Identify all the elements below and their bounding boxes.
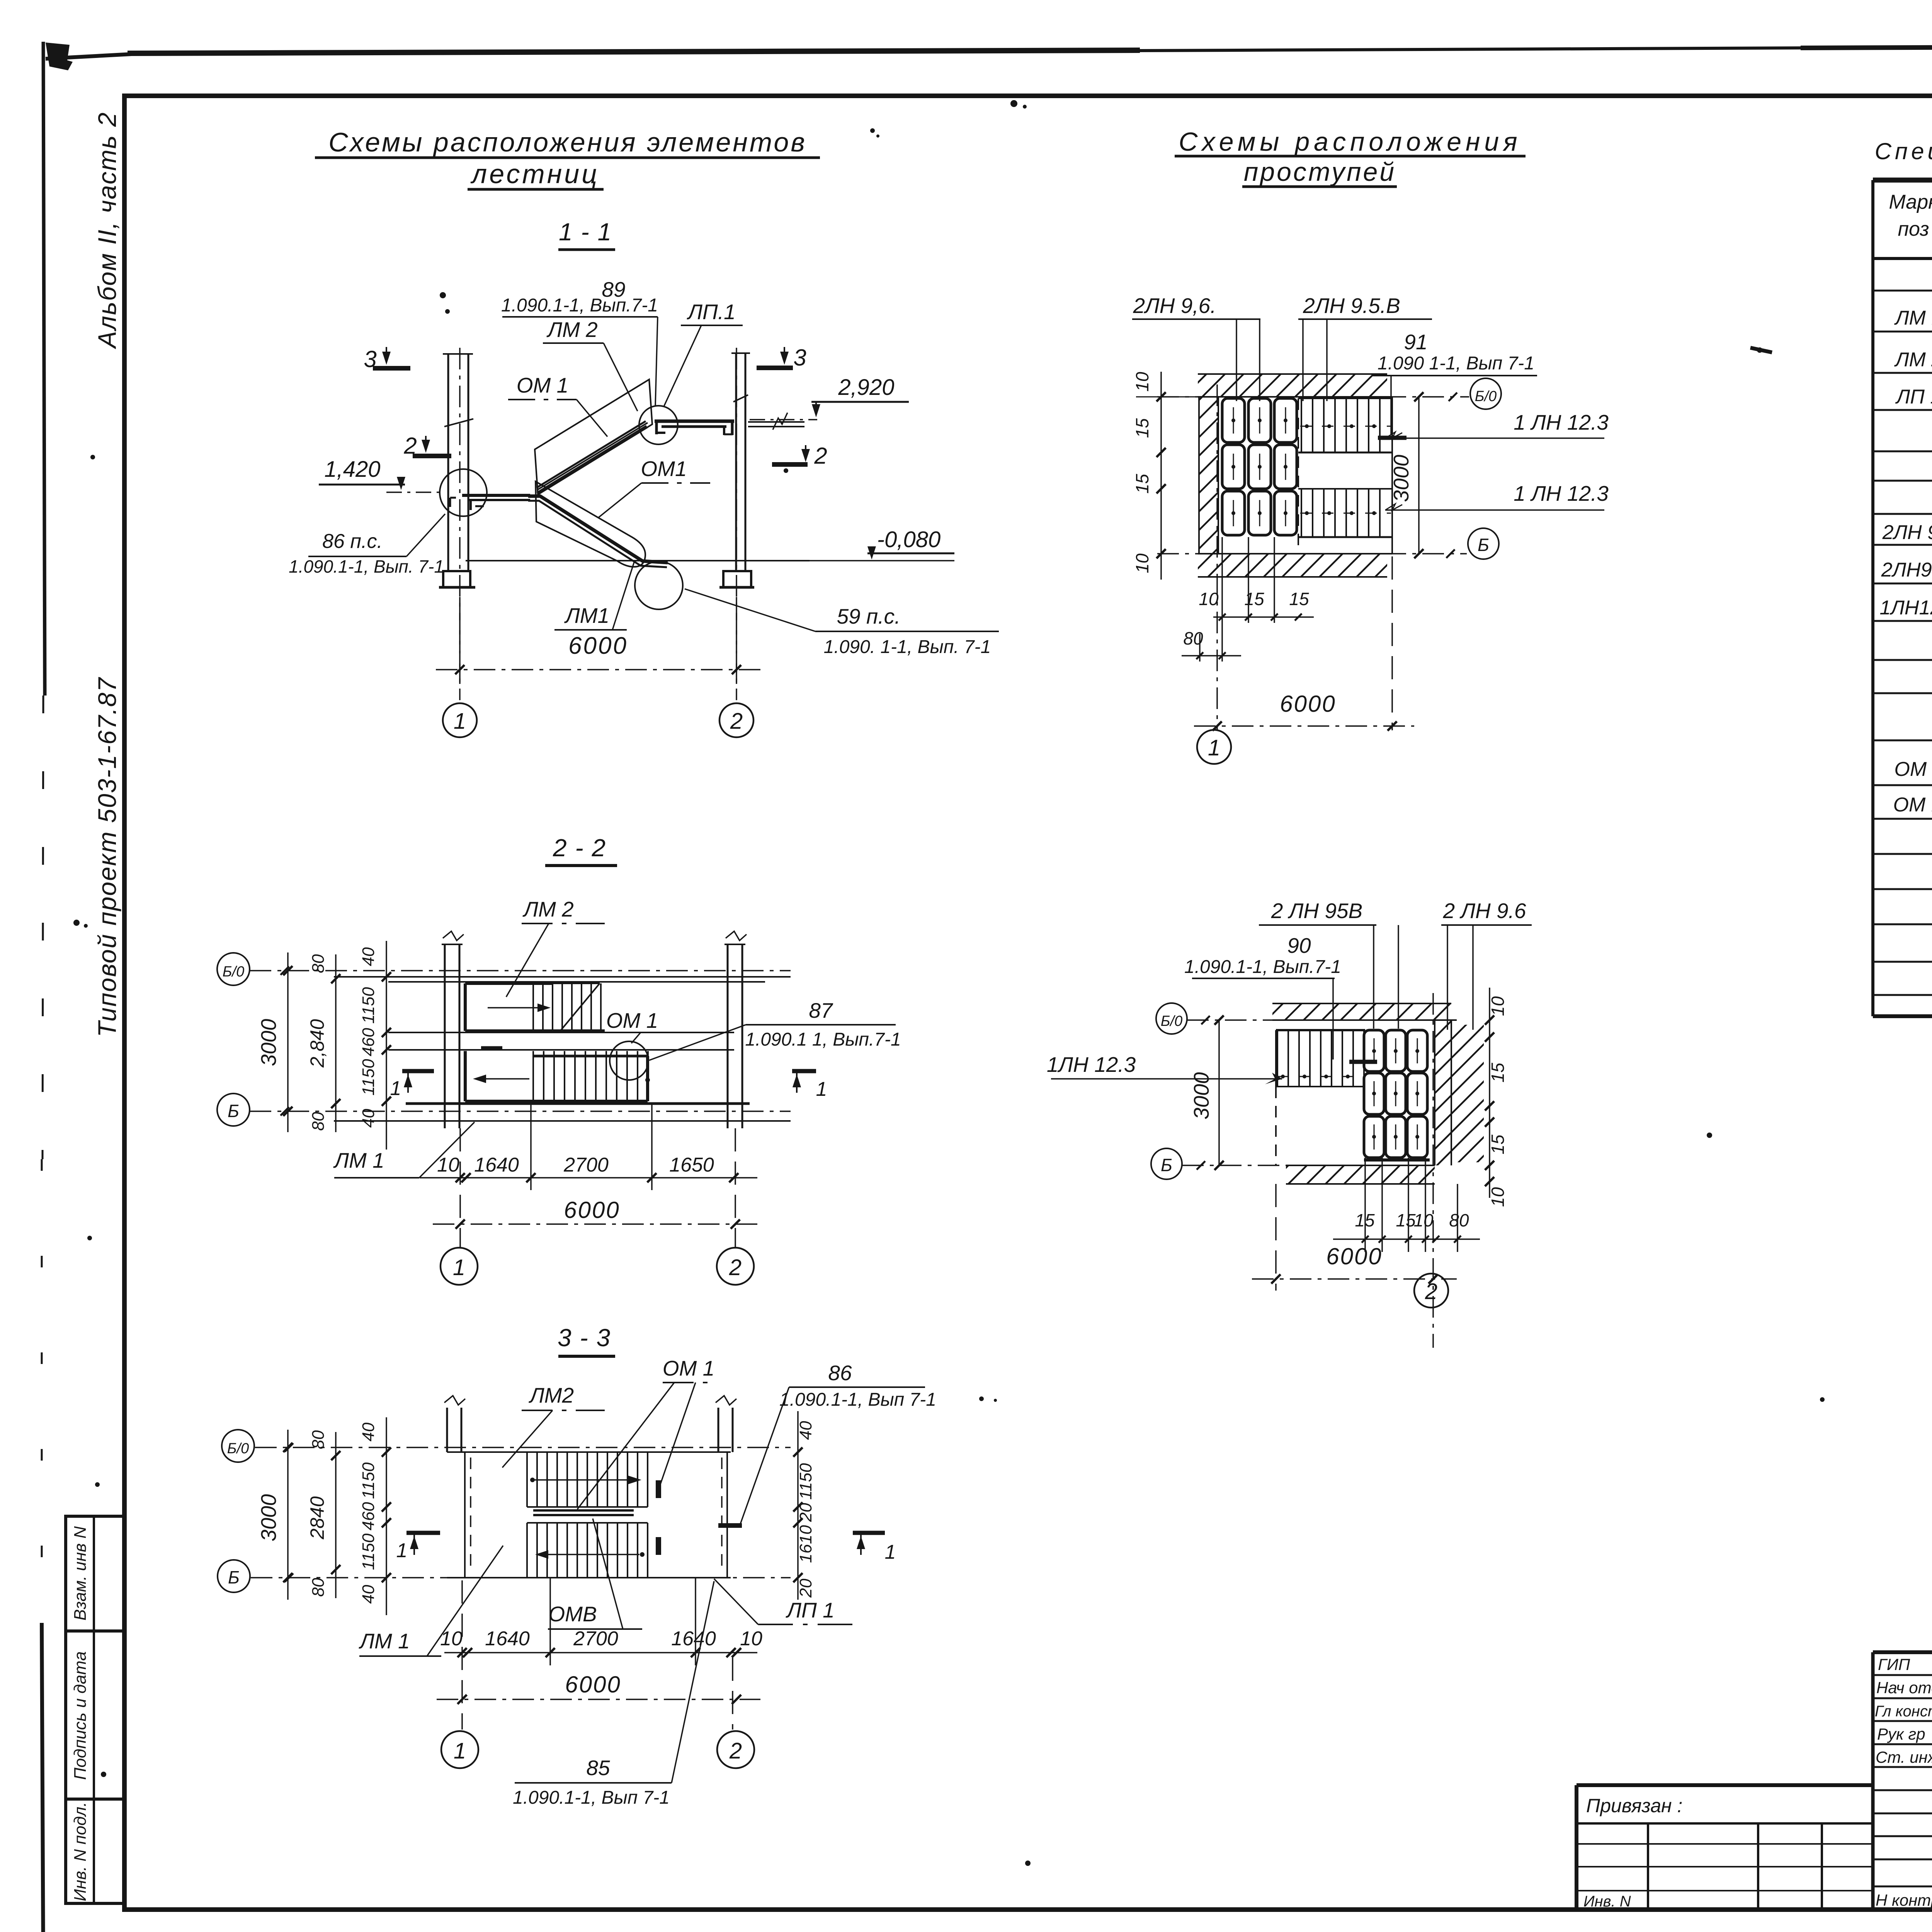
- margin stamp boxes: [66, 1516, 124, 1903]
- right column footing (section 1-1): [719, 571, 754, 587]
- margin stamp label Podpis i data: [71, 1651, 90, 1780]
- section 3-3 dimension 2840 and 80s: [306, 1430, 340, 1598]
- plan 1 tread 2LN9.6 grid (3x3 prostupi): [1222, 398, 1297, 535]
- plan 2 stair edge dashed: [1275, 1087, 1277, 1165]
- section 3-3 dimension chain 40 1150 20 1610 20 right: [793, 1411, 815, 1600]
- svg-text:1: 1: [1208, 735, 1220, 760]
- plan 1 dimension 80: [1182, 628, 1241, 662]
- svg-text:1: 1: [390, 1077, 401, 1100]
- svg-text:2: 2: [730, 709, 743, 734]
- svg-text:1150: 1150: [359, 987, 378, 1024]
- svg-text:2 ЛН 95В: 2 ЛН 95В: [1271, 899, 1362, 923]
- scan speckles top area: [440, 100, 1772, 473]
- svg-text:1.090.1-1, Вып. 7-1: 1.090.1-1, Вып. 7-1: [289, 556, 444, 577]
- section 2-2 axis line B/0: [250, 966, 791, 975]
- svg-text:1ЛН12.3: 1ЛН12.3: [1879, 597, 1932, 619]
- section 2-2 dimension chain 40 1150 460 1150 40: [359, 941, 391, 1150]
- plan 1 label 1LN 12.3 upper with leader: [1385, 410, 1609, 438]
- svg-text:1.090.1-1, Вып 7-1: 1.090.1-1, Вып 7-1: [779, 1389, 936, 1410]
- svg-text:Б/0: Б/0: [227, 1440, 249, 1457]
- svg-text:3 - 3: 3 - 3: [558, 1324, 611, 1352]
- label 89 / 1.090.1-1 Vyp.7-1 with leader: [501, 277, 658, 406]
- section 3-3 title: [558, 1324, 615, 1356]
- section 2-2 label LM1 with leader: [333, 1122, 474, 1178]
- svg-text:Типовой проект 503-1-67.87: Типовой проект 503-1-67.87: [93, 677, 121, 1037]
- section 3-3 grid line 1 centerline: [461, 1580, 463, 1730]
- section 2-2 bottom wall lines: [334, 1104, 791, 1121]
- svg-text:15: 15: [1396, 1210, 1416, 1230]
- svg-text:1150: 1150: [359, 1059, 378, 1095]
- plan 1 stair edge dashed: [1298, 398, 1299, 554]
- svg-text:1: 1: [885, 1541, 896, 1563]
- detail circle at flight LM1 foot (section 1-1): [635, 561, 683, 609]
- label 59 p.s. / 1.090.1-1 Vyp.7-1 with leader: [685, 589, 999, 657]
- dimension 6000 (section 1-1): [436, 597, 760, 684]
- section 3-3 label LP1 with leader: [714, 1579, 855, 1624]
- svg-text:Гл констр: Гл констр: [1875, 1703, 1932, 1720]
- svg-text:1: 1: [453, 1255, 465, 1280]
- svg-text:Спецификация к схемам располо: Спецификация к схемам расположения элеме…: [1875, 138, 1932, 164]
- title line 2 lestnits: [468, 159, 604, 189]
- plan 2 upper flight treads: [1276, 1030, 1365, 1087]
- svg-text:Б: Б: [1478, 535, 1489, 555]
- svg-text:ОМ 1: ОМ 1: [606, 1009, 658, 1032]
- svg-text:1ЛН 12.3: 1ЛН 12.3: [1047, 1053, 1136, 1077]
- svg-text:85: 85: [586, 1756, 610, 1780]
- svg-text:Б/0: Б/0: [223, 964, 244, 980]
- svg-text:15: 15: [1289, 589, 1309, 609]
- svg-text:6000: 6000: [565, 1672, 621, 1697]
- svg-text:1.090.1 1, Вып.7-1: 1.090.1 1, Вып.7-1: [745, 1029, 901, 1050]
- svg-text:ЛМ1: ЛМ1: [564, 604, 609, 628]
- svg-text:Взам. инв N: Взам. инв N: [71, 1526, 90, 1621]
- label LP.1 with leader: [664, 300, 743, 406]
- section 3-3 railing OMV between flights: [533, 1510, 634, 1515]
- title block signature row lines: [1873, 1675, 1932, 1886]
- svg-text:2840: 2840: [306, 1496, 328, 1539]
- svg-text:1.090.1-1, Вып.7-1: 1.090.1-1, Вып.7-1: [1184, 957, 1341, 977]
- plan 2 label 2 LN 9.6 with leaders: [1441, 899, 1532, 1030]
- plan 1 left wall hatched: [1199, 397, 1218, 554]
- svg-text:1640: 1640: [474, 1154, 519, 1176]
- svg-text:1 ЛН 12.3: 1 ЛН 12.3: [1514, 481, 1609, 505]
- svg-text:2: 2: [814, 443, 827, 469]
- section cut mark 3 right: [757, 345, 806, 371]
- spec table row 1LN12.3: [1879, 597, 1932, 619]
- svg-text:1650: 1650: [669, 1154, 714, 1176]
- spec table row LP1: [1895, 386, 1932, 408]
- svg-text:460: 460: [359, 1502, 378, 1531]
- svg-text:ЛП 1: ЛП 1: [786, 1598, 834, 1622]
- section 3-3 axis line B: [251, 1573, 791, 1582]
- svg-text:10: 10: [1488, 996, 1508, 1016]
- svg-text:ЛМ 1: ЛМ 1: [1894, 307, 1932, 329]
- svg-text:ГИП: ГИП: [1878, 1655, 1910, 1673]
- svg-text:15: 15: [1244, 589, 1264, 609]
- svg-text:80: 80: [309, 954, 328, 973]
- left column footing (section 1-1): [439, 571, 475, 587]
- svg-text:10: 10: [740, 1628, 762, 1650]
- title block outer lines: [1577, 1652, 1932, 1910]
- section 3-3 flight LM2 treads: [527, 1452, 648, 1507]
- svg-text:6000: 6000: [1280, 691, 1336, 717]
- right column (section 1-1): [731, 353, 750, 571]
- section 3-3 label 85 / 1.090.1-1 Vyp 7-1 with leader: [513, 1581, 714, 1808]
- svg-text:15: 15: [1488, 1134, 1508, 1155]
- section 3-3 dimension chain 40 1150 460 1150 40 left: [359, 1417, 391, 1615]
- upper flight LM2 stringer (section 1-1): [537, 421, 647, 493]
- section 3-3 right column stub: [716, 1396, 736, 1452]
- plan 2 tread 3x3 grid (prostupi): [1364, 1030, 1427, 1158]
- plan 1 upper flight treads 1LN12.3: [1298, 398, 1392, 452]
- svg-text:80: 80: [309, 1578, 328, 1597]
- section 2-2 title: [545, 834, 617, 866]
- svg-text:1640: 1640: [671, 1628, 716, 1650]
- section cut mark 2 right: [772, 443, 827, 469]
- plan 2 vertical dimension 3000: [1189, 1015, 1224, 1170]
- svg-text:лестниц: лестниц: [470, 159, 599, 189]
- svg-text:Б: Б: [1161, 1155, 1172, 1175]
- svg-text:2,840: 2,840: [306, 1019, 328, 1068]
- svg-text:1 - 1: 1 - 1: [559, 218, 612, 246]
- section 3-3 bottom dimension chain 10 1640 2700 1640 10: [440, 1578, 762, 1665]
- label 86 p.s. / 1.090.1-1 Vyp.7-1 with leader: [289, 514, 445, 577]
- svg-text:1 ЛН 12.3: 1 ЛН 12.3: [1514, 410, 1609, 434]
- svg-text:Б: Б: [228, 1567, 240, 1587]
- spec table row LM2: [1894, 349, 1932, 371]
- svg-text:10: 10: [1488, 1187, 1508, 1207]
- plan 1 label 91 / 1.090.1-1 Vyp 7-1 with leader: [1372, 330, 1537, 438]
- svg-text:3000: 3000: [1189, 1072, 1213, 1119]
- svg-text:1.090 1-1, Вып 7-1: 1.090 1-1, Вып 7-1: [1378, 353, 1534, 374]
- label OM1 middle with leader: [598, 457, 710, 518]
- section 2-2 axis circle B/0: [217, 953, 250, 985]
- section 2-2 label LM2 with leader: [506, 897, 605, 997]
- svg-text:2: 2: [729, 1255, 742, 1280]
- svg-text:80: 80: [1449, 1210, 1469, 1230]
- svg-text:1150: 1150: [359, 1462, 378, 1499]
- title line 2 prostupey: [1242, 157, 1397, 187]
- plan 2 right wall hatched: [1435, 1020, 1484, 1165]
- column axis 2 centerline (section 1-1): [736, 348, 737, 700]
- svg-text:6000: 6000: [564, 1197, 620, 1223]
- svg-text:3000: 3000: [257, 1494, 281, 1541]
- scan corner blob top-left: [46, 43, 73, 70]
- plan 1 label 2LN 9.5V with leaders: [1298, 294, 1432, 401]
- section 2-2 grid line 1 centerline: [459, 1128, 461, 1247]
- label OM1 upper with leader: [508, 373, 607, 437]
- svg-text:Альбом II, часть 2: Альбом II, часть 2: [93, 112, 121, 349]
- section 2-2 flight LM2 plan cut: [465, 983, 605, 1048]
- plan 1 bottom dimension chain 10 15 15: [1199, 537, 1314, 662]
- svg-text:2: 2: [729, 1738, 742, 1764]
- svg-text:ЛМ2: ЛМ2: [529, 1383, 574, 1407]
- elevation mark -0.080: [810, 527, 954, 561]
- section cut mark 3 left: [364, 346, 410, 372]
- svg-text:1610: 1610: [796, 1525, 815, 1563]
- svg-text:ОМ 1: ОМ 1: [517, 373, 568, 397]
- svg-text:6000: 6000: [568, 633, 628, 659]
- section 2-2 top wall lines: [334, 977, 791, 982]
- section 3-3 axis circle B/0: [222, 1430, 254, 1462]
- landing slab LP1 profile (section 1-1): [655, 421, 734, 435]
- label LM1 with leader: [554, 561, 634, 630]
- svg-text:Схемы расположения: Схемы расположения: [1179, 127, 1521, 156]
- section 3-3 grid circle 2: [717, 1731, 754, 1768]
- section 2-2 grid circle 2: [717, 1248, 754, 1285]
- svg-text:86: 86: [828, 1361, 852, 1385]
- plan 2 landing edge thick: [1364, 1158, 1430, 1162]
- svg-text:1.090.1-1, Вып.7-1: 1.090.1-1, Вып.7-1: [501, 295, 658, 316]
- elevation mark 1.420: [319, 457, 444, 492]
- title Schemes of stair elements line 1: [315, 127, 820, 158]
- svg-text:15: 15: [1132, 474, 1152, 494]
- svg-text:59 п.с.: 59 п.с.: [837, 604, 901, 628]
- svg-text:ЛП.1: ЛП.1: [687, 300, 735, 324]
- svg-text:ОМ1: ОМ1: [641, 457, 687, 481]
- plan 1 lower flight treads 1LN12.3: [1298, 489, 1392, 537]
- left landing slab (section 1-1): [450, 495, 530, 510]
- title block signature names: [1875, 1655, 1932, 1909]
- landing level line continuation right of column 2: [748, 413, 804, 430]
- svg-text:Б: Б: [228, 1101, 239, 1121]
- plan 1 grid line 1 centerline: [1216, 384, 1218, 730]
- svg-text:80: 80: [1183, 628, 1203, 648]
- svg-text:1: 1: [816, 1078, 827, 1100]
- section 3-3 left column stub: [444, 1396, 465, 1452]
- plan 2 grid circle 2: [1414, 1274, 1448, 1308]
- plan 2 label 1LN 12.3 with leader: [1047, 1053, 1282, 1084]
- plan 2 axis line B: [1182, 1165, 1341, 1166]
- section 2-2 axis circle B: [217, 1094, 250, 1126]
- svg-text:2 - 2: 2 - 2: [553, 834, 606, 862]
- plan 2 top wall hatched: [1272, 1003, 1457, 1020]
- svg-text:20: 20: [796, 1578, 815, 1598]
- spec table row LM1: [1894, 307, 1932, 329]
- section 2-2 section mark 1 left: [390, 1071, 434, 1100]
- detail circle at landing LP1 (section 1-1): [639, 406, 678, 444]
- svg-text:Схемы расположения элементов: Схемы расположения элементов: [328, 127, 807, 157]
- section 2-2 left column: [442, 931, 464, 1128]
- spec table outer border: [1873, 180, 1932, 1016]
- title Schemes of treads line 1: [1175, 127, 1526, 156]
- spec table header row line: [1873, 257, 1932, 260]
- plan 2 bottom dimension chain 15 15 10 80: [1333, 1158, 1480, 1252]
- flight LM1 stringer (section 1-1): [528, 496, 668, 567]
- svg-text:Б/0: Б/0: [1161, 1013, 1182, 1029]
- svg-text:ЛП 1: ЛП 1: [1895, 386, 1932, 408]
- svg-text:10: 10: [437, 1154, 459, 1176]
- plan 2 axis circle B: [1151, 1148, 1205, 1179]
- spec table row OMV: [1893, 794, 1932, 816]
- plan 1 grid circle 1: [1197, 730, 1231, 764]
- svg-text:20: 20: [796, 1503, 815, 1522]
- label LM2 with leader: [543, 318, 638, 411]
- section 2-2 landing boundary lines: [388, 1032, 734, 1050]
- svg-text:Нач отд: Нач отд: [1876, 1679, 1932, 1697]
- spec table header texts: [1889, 191, 1932, 242]
- plan 1 axis circle B/0: [1449, 378, 1501, 409]
- scan border top edge: [46, 45, 1932, 80]
- svg-text:2ЛН 9.6: 2ЛН 9.6: [1882, 521, 1932, 544]
- plan 2 bottom wall hatched: [1286, 1165, 1435, 1184]
- section 2-2 section mark 1 right: [792, 1071, 827, 1100]
- spec table row lines: [1873, 291, 1932, 995]
- svg-text:2700: 2700: [563, 1154, 609, 1176]
- spec table row 2LN9.6: [1882, 521, 1932, 544]
- svg-text:1.090. 1-1, Вып. 7-1: 1.090. 1-1, Вып. 7-1: [824, 637, 991, 657]
- section 2-2 bottom dimension chain 10 1640 2700 1650: [420, 1104, 757, 1190]
- section 2-2 dimension 3000: [257, 952, 293, 1132]
- svg-text:10: 10: [440, 1628, 463, 1650]
- plan 1 label 1LN 12.3 lower with leader: [1385, 481, 1609, 510]
- svg-text:10: 10: [1132, 372, 1152, 392]
- svg-text:15: 15: [1488, 1063, 1508, 1083]
- svg-text:Привязан :: Привязан :: [1586, 1795, 1682, 1816]
- title block privyazan cell: [1577, 1795, 1873, 1910]
- left column (section 1-1): [443, 354, 473, 571]
- svg-text:2ЛН 9,6.: 2ЛН 9,6.: [1133, 294, 1216, 318]
- svg-text:ЛМ 2: ЛМ 2: [1894, 349, 1932, 371]
- section 2-2 grid line 2 centerline: [735, 1128, 736, 1247]
- svg-text:1.090.1-1, Вып 7-1: 1.090.1-1, Вып 7-1: [513, 1787, 670, 1808]
- svg-text:40: 40: [359, 1585, 378, 1604]
- svg-text:2ЛН95В: 2ЛН95В: [1881, 559, 1932, 581]
- svg-text:40: 40: [359, 1109, 378, 1128]
- svg-text:1: 1: [454, 1738, 466, 1764]
- section 3-3 section mark 1 right: [853, 1533, 896, 1563]
- section 3-3 section mark 1 left: [396, 1533, 440, 1562]
- upper flight LM2 railing panel OM1 (section 1-1): [535, 379, 652, 495]
- svg-text:2ЛН 9.5.В: 2ЛН 9.5.В: [1303, 294, 1400, 318]
- svg-text:ЛМ 2: ЛМ 2: [522, 897, 573, 921]
- svg-text:3: 3: [793, 345, 806, 371]
- section 2-2 dimension 2840 and 80s: [306, 954, 340, 1132]
- svg-text:3000: 3000: [257, 1019, 281, 1066]
- plan 1 stair right edge: [1391, 397, 1393, 554]
- section 3-3 handrail posts right landing: [656, 1480, 742, 1555]
- plan 2 grid line 2 centerline: [1432, 993, 1434, 1348]
- section 3-3 label LM1 with leader: [359, 1546, 503, 1656]
- svg-text:Подпись и дата: Подпись и дата: [71, 1651, 90, 1780]
- plan 2 axis circle B/0: [1156, 1003, 1210, 1034]
- grid circle 2 (section 1-1): [719, 703, 753, 737]
- section 2-2 axis line B: [250, 1107, 791, 1116]
- spec table row 2LN95V: [1881, 559, 1932, 581]
- margin label Album II part 2: [93, 112, 121, 349]
- grid circle 1 (section 1-1): [443, 703, 477, 737]
- svg-text:80: 80: [309, 1112, 328, 1131]
- svg-text:10: 10: [1413, 1210, 1434, 1230]
- section 2-2 grid circle 1: [440, 1248, 478, 1285]
- svg-text:2: 2: [1425, 1279, 1437, 1304]
- svg-text:Инв. N подл.: Инв. N подл.: [71, 1802, 90, 1901]
- svg-text:1,420: 1,420: [324, 457, 380, 482]
- section 3-3 label LM2 with leader: [502, 1383, 605, 1468]
- section 3-3 grid circle 1: [441, 1731, 478, 1768]
- svg-text:40: 40: [359, 947, 378, 966]
- section 3-3 flight LM1 treads: [527, 1523, 648, 1578]
- svg-text:Рук гр: Рук гр: [1877, 1725, 1925, 1743]
- plan 2 label 90 / 1.090.1-1 Vyp.7-1 with leader: [1184, 934, 1377, 1062]
- svg-text:15: 15: [1355, 1210, 1375, 1230]
- svg-text:Н контр: Н контр: [1876, 1891, 1932, 1909]
- plan 1 axis line B/0: [1157, 396, 1469, 398]
- section 3-3 stairwell outline: [447, 1452, 731, 1578]
- column axis 1 centerline (section 1-1): [459, 348, 461, 700]
- section 2-2 label OM1 with leader: [606, 1009, 658, 1043]
- ground line (section 1-1): [466, 560, 810, 561]
- margin label Tipovoy proekt 503-1-67.87: [93, 677, 121, 1037]
- plan 2 dimension 6000: [1252, 1184, 1457, 1291]
- svg-text:6000: 6000: [1326, 1243, 1382, 1269]
- plan 1 bottom wall hatched: [1198, 554, 1392, 577]
- spec table row OM1: [1894, 758, 1932, 781]
- svg-text:460: 460: [359, 1028, 378, 1056]
- svg-text:ОМ 1: ОМ 1: [1894, 758, 1932, 781]
- margin stamp label Inv N podl: [71, 1802, 90, 1901]
- section 2-2 label 87 / 1.090.1-1 Vyp 7-1 with leader: [649, 998, 901, 1060]
- detail circle at left landing (section 1-1): [440, 469, 487, 516]
- svg-text:ЛМ 1: ЛМ 1: [333, 1148, 384, 1172]
- plan 1 top wall hatched: [1198, 374, 1392, 397]
- section 3-3 axis circle B: [218, 1560, 250, 1592]
- plan 1 label 2LN 9.6 with leaders: [1132, 294, 1260, 401]
- svg-text:1640: 1640: [485, 1628, 530, 1650]
- svg-text:ОМ 1: ОМ 1: [663, 1356, 714, 1380]
- plan 1 axis circle B: [1446, 528, 1499, 559]
- svg-text:40: 40: [796, 1421, 815, 1440]
- section 2-2 flight LM1 plan cut: [465, 1051, 648, 1101]
- svg-text:Инв. N: Инв. N: [1583, 1893, 1631, 1910]
- svg-text:10: 10: [1132, 553, 1152, 573]
- svg-text:Б/0: Б/0: [1475, 388, 1497, 405]
- section 2-2 right column: [724, 931, 747, 1128]
- svg-text:ОМ В: ОМ В: [1893, 794, 1932, 816]
- svg-text:ОМВ: ОМВ: [548, 1602, 597, 1626]
- plan 1 vertical dimension 3000: [1389, 392, 1423, 558]
- section 2-2 railing detail circle OM1: [610, 1041, 650, 1082]
- plan 2 label 2 LN 95V with leaders: [1259, 899, 1398, 1029]
- plan 2 axis line B/0: [1187, 1019, 1341, 1021]
- section cut mark 2 left: [403, 433, 451, 459]
- svg-text:2 ЛН 9.6: 2 ЛН 9.6: [1442, 899, 1526, 923]
- section 3-3 label OM1 with leaders: [577, 1356, 716, 1509]
- section 3-3 axis line B/0: [255, 1443, 791, 1452]
- svg-text:91: 91: [1404, 330, 1427, 354]
- margin stamp label Vzam inv N: [71, 1526, 90, 1621]
- svg-text:Ст. инж.: Ст. инж.: [1876, 1748, 1932, 1766]
- scan border left edge: [42, 42, 45, 1932]
- svg-text:-0,080: -0,080: [877, 527, 940, 552]
- svg-text:ЛМ 1: ЛМ 1: [359, 1629, 410, 1653]
- svg-text:поз: поз: [1898, 218, 1929, 240]
- section 3-3 dimension 3000: [257, 1430, 293, 1600]
- svg-text:1: 1: [454, 709, 466, 734]
- plan 2 right dimension chain 10 15 15 10: [1485, 988, 1508, 1207]
- svg-text:ЛМ 2: ЛМ 2: [546, 318, 597, 342]
- plan 1 left dimension chain 10 15 15 10: [1132, 372, 1298, 580]
- svg-text:15: 15: [1132, 418, 1152, 438]
- svg-text:проступей: проступей: [1244, 157, 1396, 187]
- section 2-2 dimension 6000: [433, 1197, 760, 1229]
- svg-text:2,920: 2,920: [838, 375, 894, 400]
- section 3-3 label 86 / 1.090.1-1 Vyp 7-1 with leader: [740, 1361, 936, 1524]
- lower railing panel OM1 of flight LM1 (section 1-1): [536, 481, 645, 567]
- svg-text:Марки: Марки: [1889, 191, 1932, 213]
- svg-text:3000: 3000: [1389, 454, 1413, 502]
- svg-text:1150: 1150: [796, 1463, 815, 1500]
